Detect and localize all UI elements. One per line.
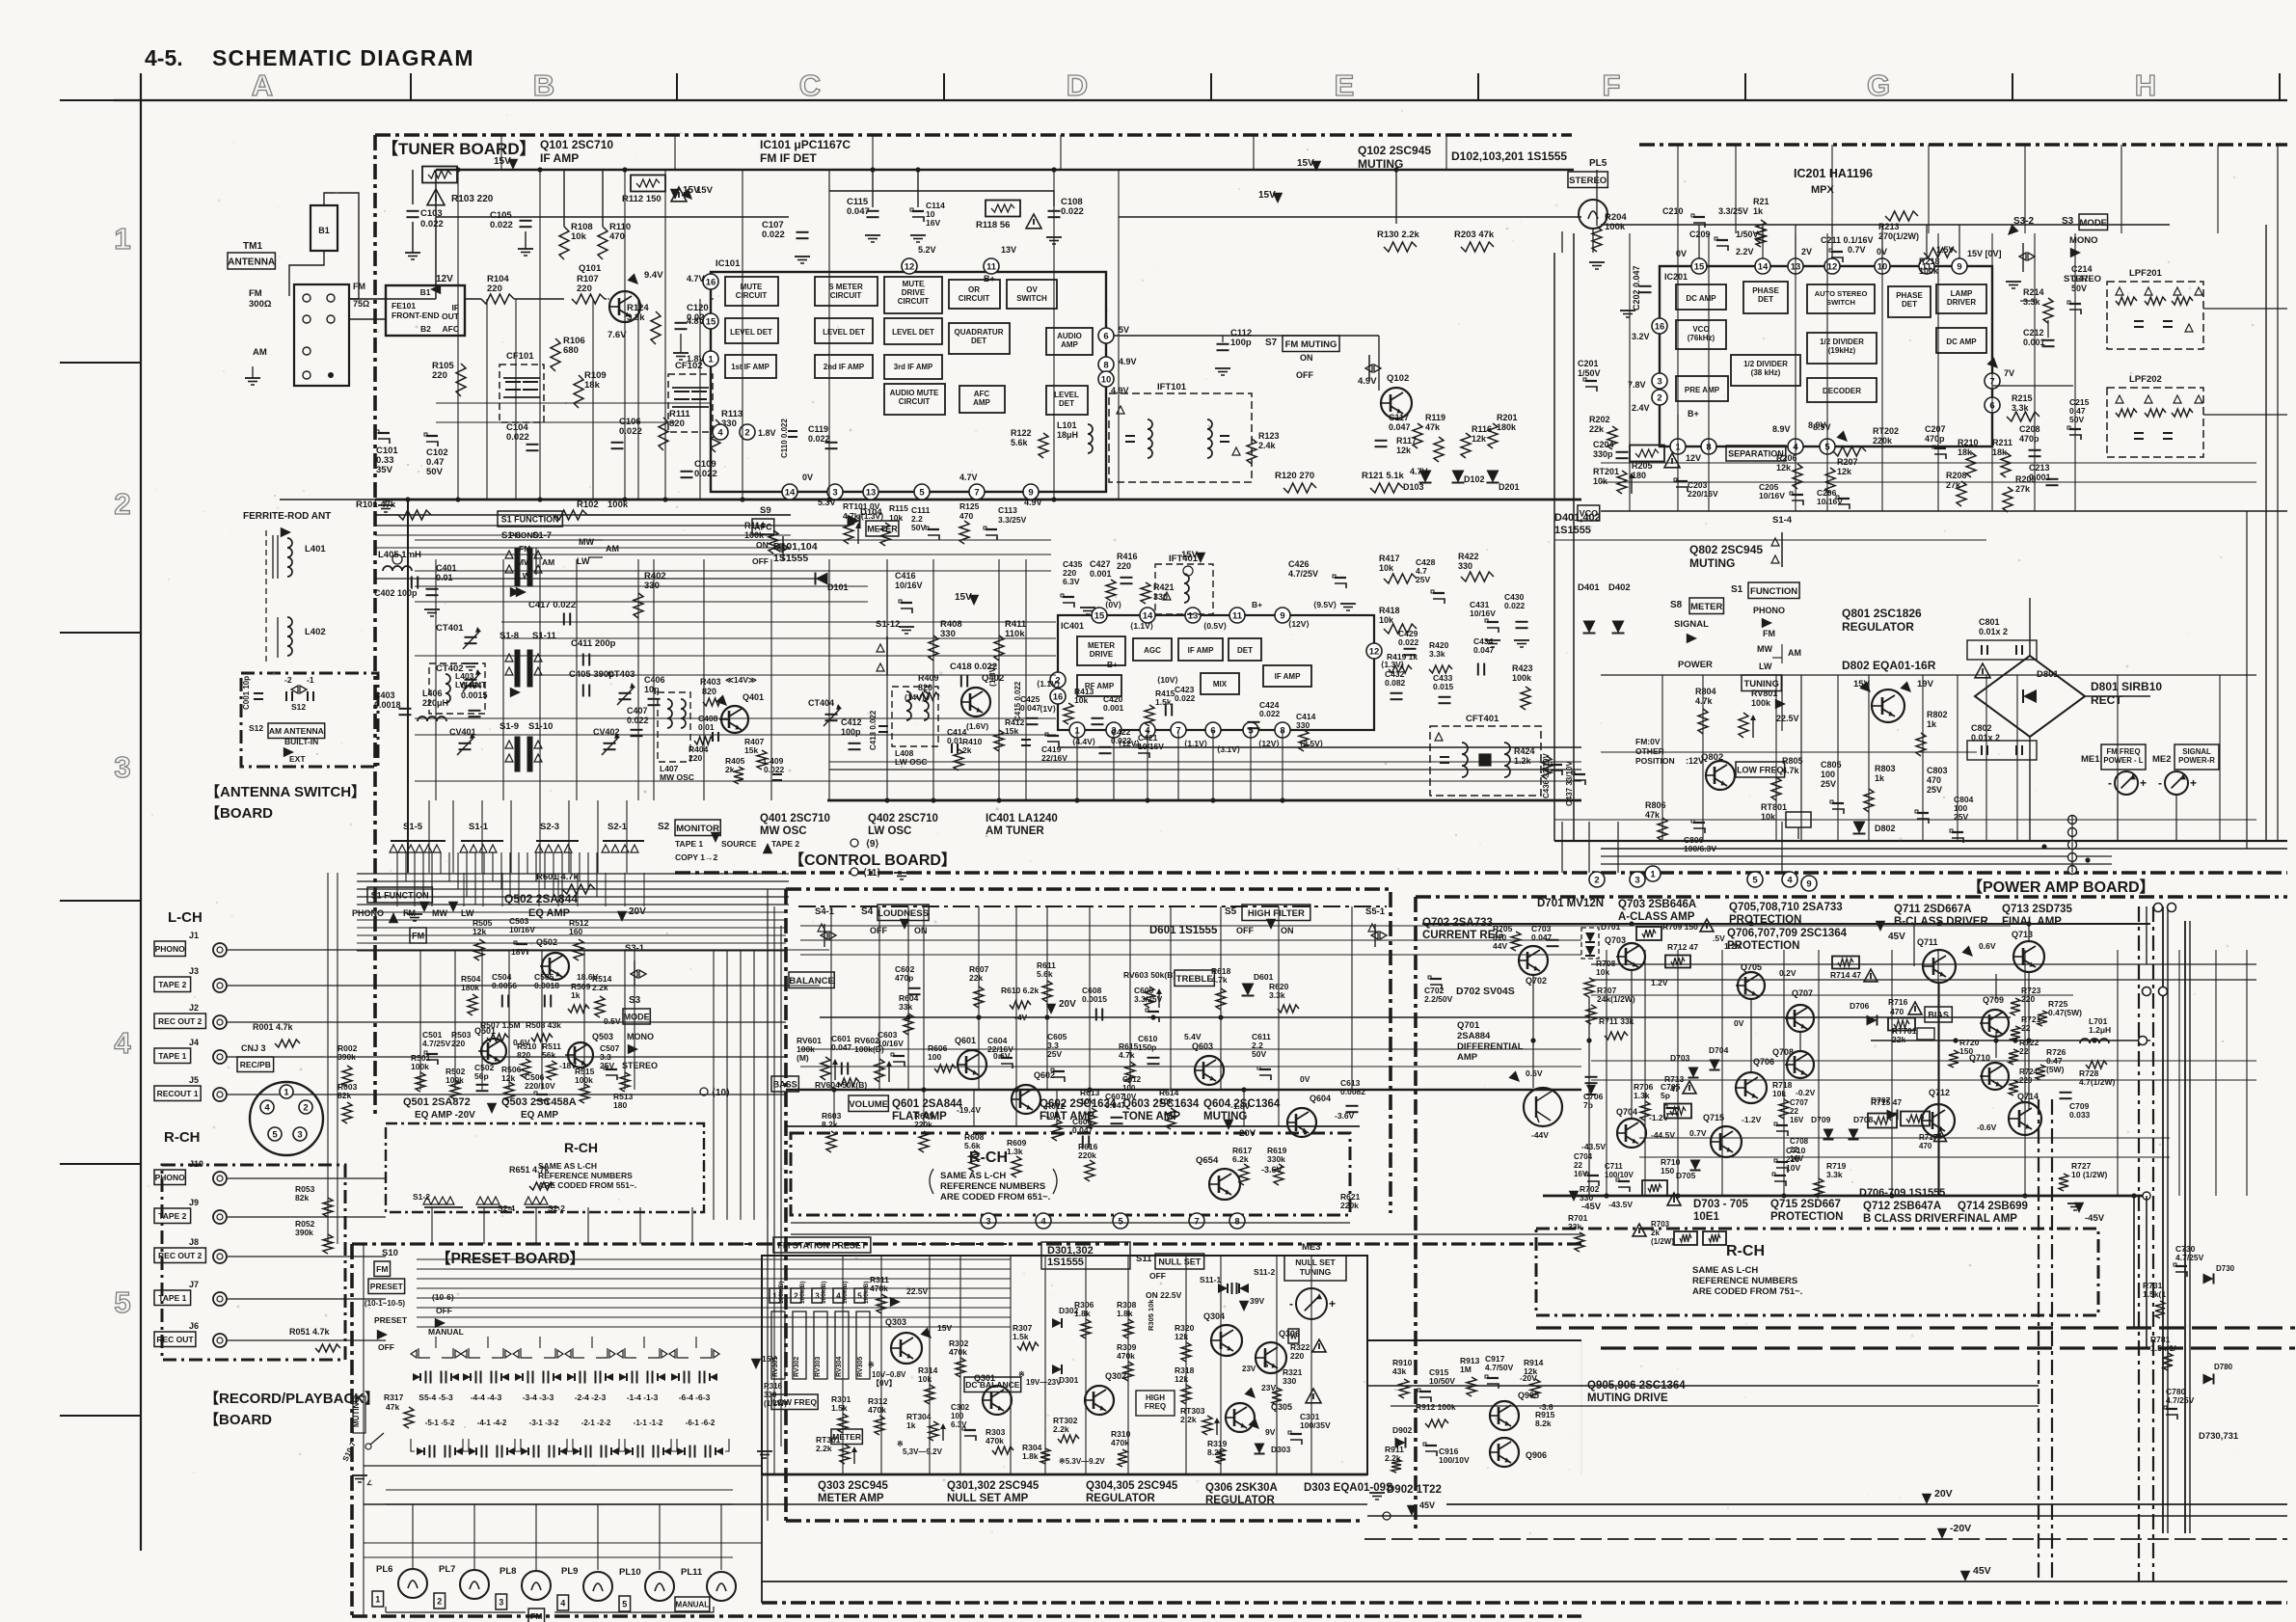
svg-text:R102: R102 bbox=[577, 500, 599, 510]
svg-text:FM IF DET: FM IF DET bbox=[760, 151, 817, 165]
wire am verticals bbox=[435, 559, 437, 800]
svg-text:2: 2 bbox=[1657, 392, 1661, 403]
transistor Q503 bbox=[568, 1042, 593, 1068]
svg-text:CIRCUIT: CIRCUIT bbox=[736, 291, 768, 300]
resistor R205 bbox=[1630, 446, 1664, 462]
svg-text:【0V】: 【0V】 bbox=[872, 1378, 897, 1388]
svg-text:SIGNAL: SIGNAL bbox=[2182, 747, 2211, 756]
svg-text:Q711 2SD667A: Q711 2SD667A bbox=[1894, 904, 1972, 915]
svg-text:19V—23V: 19V—23V bbox=[1026, 1378, 1062, 1387]
svg-text:IC101: IC101 bbox=[716, 258, 741, 269]
svg-text:5: 5 bbox=[622, 1600, 627, 1609]
svg-text:Q502 2SA844: Q502 2SA844 bbox=[504, 892, 578, 906]
svg-text:Q502: Q502 bbox=[536, 937, 557, 947]
svg-text:C001 10p: C001 10p bbox=[242, 676, 251, 710]
svg-text:33k: 33k bbox=[1568, 1222, 1581, 1231]
svg-text:1/50V: 1/50V bbox=[1578, 368, 1601, 378]
capacitor C102 bbox=[426, 435, 438, 437]
svg-text:+: + bbox=[2140, 776, 2147, 790]
svg-text:Q304: Q304 bbox=[1203, 1311, 1225, 1321]
svg-text:POWER: POWER bbox=[1678, 660, 1713, 670]
diode D707 bbox=[1887, 1110, 1898, 1121]
svg-text:VOLUME: VOLUME bbox=[849, 1099, 888, 1110]
svg-text:4.7/50V: 4.7/50V bbox=[1485, 1363, 1514, 1372]
svg-text:47k: 47k bbox=[1645, 810, 1661, 820]
svg-text:METER: METER bbox=[1690, 602, 1722, 612]
ic block afc amp bbox=[959, 386, 1005, 413]
svg-text:PL10: PL10 bbox=[619, 1567, 641, 1578]
svg-text:D402: D402 bbox=[1608, 582, 1631, 593]
svg-text:-0.2V: -0.2V bbox=[1796, 1088, 1816, 1097]
svg-text:COPY 1→2: COPY 1→2 bbox=[675, 852, 718, 862]
svg-text:16V: 16V bbox=[1790, 1116, 1804, 1124]
svg-text:75Ω: 75Ω bbox=[353, 299, 369, 309]
transistor Q706 bbox=[1736, 1072, 1767, 1103]
svg-text:D730,731: D730,731 bbox=[2199, 1431, 2239, 1442]
svg-text:S12: S12 bbox=[249, 723, 263, 733]
svg-text:7.6V: 7.6V bbox=[608, 330, 627, 340]
svg-text:STEREO: STEREO bbox=[622, 1061, 658, 1070]
transistor Q802 bbox=[1706, 761, 1735, 790]
svg-text:REC OUT 2: REC OUT 2 bbox=[158, 1251, 203, 1260]
svg-text:MUTING: MUTING bbox=[1689, 556, 1735, 570]
svg-text:15k: 15k bbox=[744, 745, 758, 755]
svg-text:REGULATOR: REGULATOR bbox=[1086, 1493, 1155, 1504]
ic block lamp driver bbox=[1936, 284, 1986, 313]
diode D302 bbox=[1052, 1318, 1062, 1328]
svg-text:-20V: -20V bbox=[1520, 1373, 1537, 1383]
svg-text:1.5k: 1.5k bbox=[1013, 1332, 1029, 1341]
svg-text:-2-4 -2-3: -2-4 -2-3 bbox=[575, 1392, 607, 1402]
wire meter bottom bus bbox=[762, 1473, 1367, 1476]
svg-text:DECODER: DECODER bbox=[1823, 387, 1861, 395]
svg-text:B+: B+ bbox=[984, 274, 995, 284]
svg-text:OR: OR bbox=[968, 285, 980, 294]
svg-text:C404: C404 bbox=[461, 681, 482, 690]
svg-text:POWER - L: POWER - L bbox=[2103, 756, 2143, 765]
svg-text:470k: 470k bbox=[868, 1405, 886, 1415]
svg-text:100k: 100k bbox=[1751, 698, 1771, 708]
svg-text:D601 1S1555: D601 1S1555 bbox=[1149, 925, 1218, 936]
svg-text:5: 5 bbox=[272, 1129, 278, 1140]
wire top v tuner bbox=[500, 135, 502, 170]
svg-text:R317: R317 bbox=[384, 1392, 404, 1402]
svg-text:BUILT-IN: BUILT-IN bbox=[284, 737, 318, 746]
svg-text:FINAL AMP: FINAL AMP bbox=[2002, 916, 2062, 928]
wire tuner vert2 bbox=[486, 299, 488, 500]
svg-text:RT201: RT201 bbox=[1593, 467, 1619, 476]
svg-text:4.7V: 4.7V bbox=[687, 274, 705, 284]
wire IC201 top bus bbox=[1601, 224, 2170, 226]
svg-text:CIRCUIT: CIRCUIT bbox=[899, 397, 931, 406]
svg-text:1.3k: 1.3k bbox=[1634, 1091, 1650, 1100]
switch preset row1 -4-4/-4-3 bbox=[469, 1348, 480, 1358]
pin 7 IC101 bbox=[969, 484, 985, 500]
svg-text:CURRENT REG: CURRENT REG bbox=[1422, 930, 1503, 941]
svg-text:7: 7 bbox=[974, 487, 979, 498]
svg-text:4.9V: 4.9V bbox=[1024, 498, 1042, 507]
pin 14 IC101 bbox=[782, 484, 797, 500]
svg-text:18k: 18k bbox=[1958, 447, 1973, 457]
wire control vert2 bbox=[833, 1090, 835, 1126]
svg-text:22: 22 bbox=[2019, 1046, 2029, 1056]
svg-text:LEVEL: LEVEL bbox=[1054, 391, 1079, 399]
svg-text:R21: R21 bbox=[1753, 197, 1769, 206]
svg-text:REGULATOR: REGULATOR bbox=[1842, 620, 1914, 634]
svg-text:FUNCTION: FUNCTION bbox=[1750, 586, 1797, 597]
svg-text:D730: D730 bbox=[2216, 1264, 2235, 1273]
svg-text:35V: 35V bbox=[376, 465, 393, 475]
svg-text:CNJ 3: CNJ 3 bbox=[241, 1043, 266, 1053]
svg-text:R421: R421 bbox=[1153, 582, 1175, 592]
pin 4 IC401 bbox=[1140, 722, 1155, 738]
wire preset left bundle bbox=[327, 873, 329, 1244]
transistor Q603 bbox=[1195, 1056, 1224, 1085]
svg-text:5: 5 bbox=[857, 1292, 862, 1301]
preset board outline left bbox=[350, 1244, 354, 1616]
svg-text:3: 3 bbox=[114, 750, 130, 784]
pin 2 IC101 bbox=[740, 424, 755, 440]
svg-text:⟨1.1V⟩: ⟨1.1V⟩ bbox=[1037, 679, 1060, 689]
svg-text:390k: 390k bbox=[295, 1228, 313, 1237]
svg-text:22k: 22k bbox=[1589, 424, 1605, 434]
svg-text:Q601: Q601 bbox=[955, 1036, 976, 1045]
svg-text:2V: 2V bbox=[1801, 247, 1812, 257]
svg-text:S2-3: S2-3 bbox=[540, 822, 559, 832]
svg-text:330: 330 bbox=[1153, 592, 1168, 602]
svg-text:LEVEL DET: LEVEL DET bbox=[730, 328, 772, 337]
svg-text:MONO: MONO bbox=[627, 1032, 654, 1041]
svg-text:13V: 13V bbox=[1001, 245, 1016, 255]
svg-text:OFF: OFF bbox=[378, 1342, 394, 1352]
svg-text:1.8k: 1.8k bbox=[1022, 1451, 1039, 1461]
svg-text:REC OUT: REC OUT bbox=[156, 1335, 194, 1344]
svg-text:45V: 45V bbox=[1419, 1500, 1435, 1510]
label HIGH FREQ bbox=[1136, 1391, 1175, 1416]
svg-text:MODE: MODE bbox=[624, 1013, 650, 1022]
svg-text:Q706: Q706 bbox=[1753, 1057, 1774, 1067]
svg-text:R712 47: R712 47 bbox=[1667, 942, 1698, 952]
svg-text:S5-1: S5-1 bbox=[1365, 906, 1386, 917]
svg-text:180: 180 bbox=[613, 1100, 627, 1110]
svg-text:FM:0V: FM:0V bbox=[1635, 737, 1661, 746]
svg-text:TAPE 1: TAPE 1 bbox=[158, 1293, 186, 1303]
preset board outline top bbox=[352, 1242, 1581, 1245]
svg-text:R416: R416 bbox=[1117, 552, 1138, 561]
svg-text:220: 220 bbox=[689, 753, 702, 763]
svg-text:3: 3 bbox=[832, 487, 837, 498]
ic block 1st if bbox=[725, 355, 776, 378]
svg-text:45V: 45V bbox=[1888, 932, 1905, 942]
svg-text:J4: J4 bbox=[189, 1038, 199, 1047]
svg-text:BALANCE: BALANCE bbox=[789, 976, 833, 987]
svg-text:S11-1: S11-1 bbox=[1200, 1275, 1221, 1284]
svg-text:D601: D601 bbox=[1254, 972, 1274, 982]
svg-text:3.3k: 3.3k bbox=[1429, 649, 1445, 659]
svg-text:⟨12V⟩: ⟨12V⟩ bbox=[1288, 619, 1310, 629]
transistor Q402 bbox=[961, 688, 990, 716]
svg-text:S1-11: S1-11 bbox=[532, 631, 557, 641]
svg-text:1.2k: 1.2k bbox=[1514, 756, 1532, 766]
svg-text:25V: 25V bbox=[1927, 785, 1942, 795]
svg-text:Q301,302 2SC945: Q301,302 2SC945 bbox=[947, 1480, 1040, 1492]
svg-text:470p: 470p bbox=[2019, 434, 2039, 444]
svg-text:S1 FUNCTION: S1 FUNCTION bbox=[501, 515, 559, 525]
svg-text:J7: J7 bbox=[189, 1280, 199, 1289]
svg-text:LW: LW bbox=[461, 908, 474, 918]
svg-text:Q712 2SB647A: Q712 2SB647A bbox=[1863, 1201, 1941, 1212]
svg-text:【CONTROL BOARD】: 【CONTROL BOARD】 bbox=[789, 852, 957, 869]
R-CH EQ dashed box bbox=[386, 1123, 704, 1212]
svg-text:PHASE: PHASE bbox=[1896, 291, 1923, 300]
svg-text:4.7/25V: 4.7/25V bbox=[1288, 569, 1318, 579]
svg-text:4.7k: 4.7k bbox=[1695, 696, 1714, 706]
wire q711 rails bbox=[1422, 923, 2150, 925]
svg-text:S1-4: S1-4 bbox=[1772, 515, 1793, 526]
svg-text:5.2V: 5.2V bbox=[918, 245, 936, 255]
svg-text:180k: 180k bbox=[461, 983, 479, 992]
svg-text:27k: 27k bbox=[2015, 484, 2031, 494]
svg-text:METER: METER bbox=[867, 525, 898, 534]
svg-text:【TUNER BOARD】: 【TUNER BOARD】 bbox=[382, 139, 536, 158]
wire tuner verticals bbox=[457, 170, 459, 500]
R-CH power dashed box bbox=[1536, 1229, 2098, 1315]
ic IC101 outline bbox=[711, 272, 1106, 492]
svg-text:R115: R115 bbox=[889, 503, 908, 513]
svg-text:⟨10V⟩: ⟨10V⟩ bbox=[1157, 675, 1178, 685]
pin 2 IC201 bbox=[1652, 390, 1667, 405]
wire right rail B bbox=[2184, 921, 2186, 1533]
svg-text:C113: C113 bbox=[998, 505, 1017, 515]
pin 4 IC101 bbox=[713, 424, 728, 440]
pin 10 IC101 bbox=[1098, 371, 1114, 387]
ic block level det1 bbox=[725, 318, 778, 343]
ground power bbox=[2067, 1203, 2083, 1204]
ic block 3rd if bbox=[884, 355, 942, 379]
ic block phase det 2 bbox=[1888, 286, 1931, 317]
diode D902 bbox=[1395, 1438, 1406, 1448]
svg-text:MW: MW bbox=[579, 537, 594, 547]
svg-text:3.3k: 3.3k bbox=[627, 312, 645, 323]
svg-text:220: 220 bbox=[432, 370, 447, 381]
svg-text:-3-4 -3-3: -3-4 -3-3 bbox=[523, 1392, 554, 1402]
svg-text:100: 100 bbox=[951, 1412, 964, 1420]
svg-text:1: 1 bbox=[708, 354, 714, 365]
svg-text:S: S bbox=[1263, 1361, 1269, 1369]
ic block if amp a bbox=[1178, 638, 1223, 661]
diode D780 bbox=[2203, 1374, 2214, 1385]
svg-text:8.2k: 8.2k bbox=[1535, 1419, 1552, 1428]
R-CH control dashed box bbox=[791, 1133, 1350, 1215]
pin 6 IC101 bbox=[1098, 328, 1114, 343]
svg-text:150: 150 bbox=[1959, 1046, 1973, 1056]
svg-text:Q707: Q707 bbox=[1792, 988, 1813, 998]
wire fe101 to ant bbox=[349, 298, 386, 300]
svg-text:1.2μH: 1.2μH bbox=[2089, 1025, 2111, 1035]
diode D703 bbox=[1688, 1068, 1699, 1078]
pin 11 IC201 bbox=[1919, 258, 1934, 274]
transistor Q654 bbox=[1209, 1169, 1240, 1200]
svg-text:C103: C103 bbox=[420, 208, 443, 219]
svg-text:Q306: Q306 bbox=[1279, 1329, 1300, 1338]
svg-text:AMP: AMP bbox=[1061, 340, 1078, 349]
svg-text:82k: 82k bbox=[295, 1193, 309, 1203]
svg-text:R316: R316 bbox=[764, 1382, 783, 1391]
svg-text:S11: S11 bbox=[1136, 1254, 1152, 1264]
svg-text:Q801 2SC1826: Q801 2SC1826 bbox=[1842, 607, 1922, 620]
svg-text:Q715: Q715 bbox=[1703, 1113, 1724, 1122]
svg-text:15V: 15V bbox=[696, 185, 714, 196]
capacitor C301 bbox=[1306, 1389, 1321, 1403]
svg-text:25V: 25V bbox=[1047, 1049, 1062, 1059]
svg-text:B+: B+ bbox=[1252, 600, 1262, 609]
wire control 20V bus bbox=[820, 1016, 2011, 1018]
svg-text:ME2: ME2 bbox=[2152, 754, 2172, 765]
svg-text:C402 100p: C402 100p bbox=[374, 588, 418, 598]
inductor L407 bbox=[658, 692, 690, 762]
diode D301 bbox=[1052, 1365, 1062, 1374]
wire page bottom dashdot bbox=[762, 1601, 2287, 1604]
svg-text:3rd IF AMP: 3rd IF AMP bbox=[894, 363, 932, 371]
svg-text:0.082: 0.082 bbox=[1385, 678, 1406, 688]
svg-text:L101: L101 bbox=[1057, 420, 1077, 430]
svg-text:100k: 100k bbox=[1512, 673, 1532, 683]
svg-text:J2: J2 bbox=[189, 1003, 199, 1013]
svg-text:LEVEL DET: LEVEL DET bbox=[892, 328, 934, 337]
svg-text:IC101 μPC1167C: IC101 μPC1167C bbox=[760, 138, 851, 151]
svg-text:15V: 15V bbox=[1181, 550, 1199, 560]
svg-text:15V [0V]: 15V [0V] bbox=[1967, 249, 2002, 258]
wire rch bundle bbox=[228, 1177, 386, 1179]
control board outline top bbox=[786, 887, 1391, 891]
svg-text:0.022: 0.022 bbox=[1504, 601, 1526, 610]
svg-text:PHASE: PHASE bbox=[1752, 286, 1779, 295]
svg-text:C802: C802 bbox=[1971, 723, 1992, 733]
svg-text:0.2V: 0.2V bbox=[1779, 968, 1796, 978]
svg-text:0.6V: 0.6V bbox=[1526, 1068, 1543, 1078]
resistor R709 bbox=[1636, 927, 1661, 940]
svg-text:Q906: Q906 bbox=[1526, 1450, 1547, 1460]
svg-text:MANUAL: MANUAL bbox=[428, 1327, 464, 1337]
svg-text:FE101: FE101 bbox=[392, 301, 416, 311]
svg-text:8.9V: 8.9V bbox=[1772, 424, 1791, 434]
svg-text:R-CH: R-CH bbox=[164, 1129, 201, 1146]
svg-text:10E1: 10E1 bbox=[1693, 1211, 1719, 1223]
wire bottom left vert bbox=[761, 1474, 763, 1603]
svg-text:R122: R122 bbox=[1011, 428, 1032, 438]
record/playback board outline bbox=[162, 1165, 345, 1360]
svg-text:10k: 10k bbox=[1074, 695, 1088, 705]
svg-text:POWER-R: POWER-R bbox=[2178, 756, 2215, 765]
svg-text:2k: 2k bbox=[725, 765, 735, 774]
svg-text:S2: S2 bbox=[658, 822, 670, 832]
tuner board outline left bbox=[373, 135, 377, 1119]
svg-text:220k: 220k bbox=[1340, 1201, 1359, 1210]
svg-text:METER: METER bbox=[1088, 641, 1115, 650]
svg-text:AFC: AFC bbox=[443, 324, 459, 334]
svg-text:ARE CODED FROM 751~.: ARE CODED FROM 751~. bbox=[1692, 1286, 1802, 1297]
svg-text:C711: C711 bbox=[1605, 1162, 1623, 1171]
svg-text:220: 220 bbox=[577, 284, 592, 294]
svg-text:REFERENCE NUMBERS: REFERENCE NUMBERS bbox=[940, 1181, 1045, 1192]
svg-text:R202: R202 bbox=[1589, 415, 1610, 424]
svg-text:20V: 20V bbox=[1934, 1488, 1953, 1500]
wire reg bus bbox=[1601, 848, 2287, 850]
svg-text:-45V: -45V bbox=[1581, 1202, 1602, 1212]
svg-text:R714 47: R714 47 bbox=[1830, 970, 1861, 980]
pin 1 IC401 bbox=[1069, 722, 1085, 738]
svg-text:C413 0.022: C413 0.022 bbox=[869, 710, 878, 750]
diode D102 bbox=[1452, 471, 1465, 483]
svg-text:PL9: PL9 bbox=[561, 1566, 578, 1577]
svg-text:0.01: 0.01 bbox=[698, 722, 715, 732]
svg-text:S3-2: S3-2 bbox=[2013, 216, 2035, 227]
svg-text:C406: C406 bbox=[644, 675, 665, 685]
svg-text:16V: 16V bbox=[1574, 1170, 1588, 1178]
svg-text:2: 2 bbox=[1594, 875, 1599, 885]
transistor Q102 bbox=[1381, 388, 1412, 419]
transistor Q303 bbox=[891, 1333, 922, 1364]
svg-text:10k: 10k bbox=[1596, 967, 1609, 977]
transistor Q502 bbox=[542, 953, 569, 980]
svg-text:330k: 330k bbox=[1267, 1154, 1285, 1164]
svg-text:TAPE 2: TAPE 2 bbox=[158, 1211, 186, 1221]
svg-text:0.022: 0.022 bbox=[694, 469, 717, 479]
control board outline bottom bbox=[786, 1519, 1364, 1523]
connector pins preset top bbox=[981, 1213, 996, 1229]
svg-text:MUTE: MUTE bbox=[903, 280, 925, 288]
resistor R322 bbox=[1288, 1329, 1299, 1343]
wire ant dash bbox=[265, 530, 267, 665]
svg-text:Q601 2SA844: Q601 2SA844 bbox=[892, 1098, 962, 1110]
svg-text:22.5V: 22.5V bbox=[906, 1286, 929, 1296]
svg-text:22k: 22k bbox=[969, 973, 983, 983]
wire mpx mid bus bbox=[1601, 510, 2287, 512]
svg-text:1/2 DIVIDER: 1/2 DIVIDER bbox=[1820, 338, 1864, 346]
label METER box bbox=[866, 521, 899, 536]
svg-text:4: 4 bbox=[114, 1026, 131, 1060]
svg-text:R418: R418 bbox=[1379, 606, 1400, 615]
svg-text:IF AMP: IF AMP bbox=[1275, 672, 1301, 681]
svg-text:15V: 15V bbox=[494, 156, 511, 167]
svg-text:100k: 100k bbox=[1919, 266, 1939, 276]
svg-text:L-CH: L-CH bbox=[168, 909, 203, 926]
wire preset bottom bus bbox=[364, 1503, 1367, 1505]
svg-text:SAME AS L-CH: SAME AS L-CH bbox=[1692, 1265, 1758, 1276]
svg-text:OFF: OFF bbox=[1296, 370, 1313, 380]
svg-text:D802 EQA01-16R: D802 EQA01-16R bbox=[1842, 659, 1936, 672]
wire pa mid vert bbox=[1532, 975, 1534, 1088]
svg-text:PL11: PL11 bbox=[681, 1567, 703, 1578]
svg-text:2.2V: 2.2V bbox=[1736, 247, 1754, 257]
svg-text:MW: MW bbox=[1757, 644, 1772, 654]
svg-text:50V: 50V bbox=[2071, 284, 2087, 293]
svg-text:R206: R206 bbox=[1776, 453, 1797, 463]
svg-text:12V: 12V bbox=[436, 274, 453, 284]
label VCO box bbox=[1578, 505, 1600, 521]
ic block agc bbox=[1133, 638, 1172, 661]
svg-text:100/10V: 100/10V bbox=[1439, 1455, 1470, 1465]
svg-text:-20V: -20V bbox=[1236, 1128, 1256, 1139]
svg-text:470p: 470p bbox=[895, 973, 913, 983]
svg-text:FINAL AMP: FINAL AMP bbox=[1958, 1213, 2017, 1225]
svg-text:J10: J10 bbox=[189, 1159, 203, 1169]
svg-text:10/16V: 10/16V bbox=[1759, 491, 1785, 500]
wire 15V top bus bbox=[436, 169, 1574, 171]
svg-text:0.001: 0.001 bbox=[1090, 569, 1112, 579]
svg-text:FLAT AMP: FLAT AMP bbox=[1040, 1111, 1094, 1122]
svg-text:2.4k: 2.4k bbox=[1258, 441, 1277, 450]
